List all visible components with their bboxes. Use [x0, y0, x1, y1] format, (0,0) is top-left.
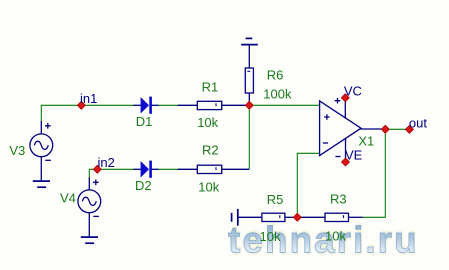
- svg-text:10k: 10k: [197, 115, 218, 130]
- ground below V4: [81, 237, 98, 243]
- node in1 junction dot: [77, 101, 85, 109]
- svg-text:in1: in1: [80, 91, 97, 106]
- resistor R2: [178, 165, 250, 173]
- wire: in2 row from V4 to D2: [89, 169, 133, 178]
- node VC dot: [341, 94, 349, 102]
- resistor R5: [238, 213, 297, 221]
- svg-text:R6: R6: [267, 68, 284, 83]
- node feedback junction dot (R5/R3): [293, 213, 301, 221]
- svg-text:R3: R3: [330, 191, 347, 206]
- wire: node A down to R2 output: [248, 105, 250, 169]
- svg-text:D2: D2: [135, 178, 152, 193]
- svg-text:10k: 10k: [260, 229, 281, 244]
- wire: between D1 and R1: [158, 104, 179, 106]
- svg-text:out: out: [409, 116, 427, 131]
- svg-text:10k: 10k: [198, 179, 219, 194]
- ground below V3: [33, 181, 50, 187]
- node output dot: [381, 125, 389, 133]
- svg-text:D1: D1: [136, 114, 153, 129]
- wire: feedback junction up to minus input: [297, 153, 319, 217]
- ground left of R5 (rotated): [232, 209, 238, 226]
- resistor R3: [297, 213, 362, 221]
- wire: between D2 and R2: [158, 168, 179, 170]
- svg-text:tehnari.ru: tehnari.ru: [228, 220, 419, 261]
- svg-text:10k: 10k: [325, 229, 346, 244]
- svg-text:R5: R5: [267, 192, 284, 207]
- diode D1: [133, 97, 158, 114]
- svg-text:100k: 100k: [263, 86, 292, 101]
- resistor R6 (vertical): [245, 45, 253, 106]
- diode D2: [133, 161, 158, 178]
- op-amp X1: [320, 98, 386, 162]
- wire: output node to out terminal: [385, 128, 409, 130]
- svg-text:V4: V4: [60, 191, 76, 206]
- svg-text:V3: V3: [9, 143, 25, 158]
- svg-text:R1: R1: [202, 80, 219, 95]
- node out terminal dot: [406, 126, 414, 134]
- wire: output node down to R3: [362, 129, 385, 217]
- svg-text:R2: R2: [202, 142, 219, 157]
- AC source V4: [78, 178, 101, 238]
- node VE dot: [342, 158, 350, 166]
- AC source V3: [30, 121, 53, 182]
- node A dot (R1/R2/R6 junction): [245, 101, 253, 109]
- wire: in1 row from V3 to D1: [41, 105, 133, 122]
- svg-text:in2: in2: [98, 155, 115, 170]
- resistor R1: [178, 101, 250, 109]
- wire: node A to op-amp plus input: [249, 104, 319, 106]
- node in2 junction dot: [93, 165, 101, 173]
- ground above R6: [241, 38, 258, 44]
